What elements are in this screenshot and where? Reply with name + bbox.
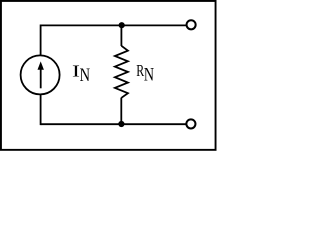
open terminal bottom-right [186, 119, 195, 128]
wire: top from source to top-right terminal [41, 24, 187, 26]
svg-text:N: N [80, 64, 90, 85]
junction dot top node [119, 22, 125, 28]
resistor bottom lead [120, 98, 122, 125]
wire: left lower segment [40, 95, 42, 126]
open terminal top-right [187, 20, 196, 29]
current source arrow shaft [40, 67, 42, 89]
current source arrowhead [38, 61, 44, 69]
resistor top lead [120, 25, 122, 46]
svg-text:N: N [144, 64, 154, 85]
junction dot bottom node [118, 121, 124, 127]
resistor R_N zigzag [115, 46, 128, 98]
wire: bottom from source to bottom-right terminal [41, 123, 187, 125]
current source I_N circle [21, 55, 60, 94]
wire: left upper segment [40, 25, 42, 56]
